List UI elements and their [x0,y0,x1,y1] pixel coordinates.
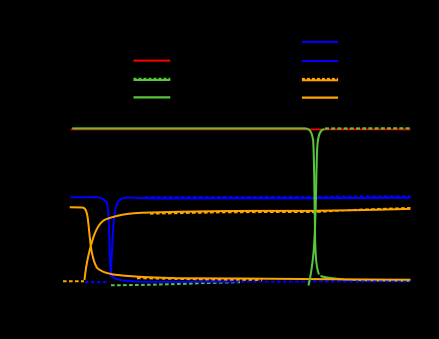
blue rising curve to right plateau [111,197,411,277]
blue solid curve: left plateau, fall, bottom tail [70,197,235,282]
legend 1 entry: green dashed handle (dash over solid pair) [134,79,171,81]
blue dashed curve: bottom-left dashes before rise [85,281,108,283]
legend 2 entry: blue solid handle 2 [302,60,338,62]
legend 2 entry: blue solid handle 1 [302,41,338,43]
legend 1 entry: red solid handle [134,60,171,62]
orange dashed overlay under right plateau [150,208,411,214]
legend 2 entry: orange dashed handle (dash over solid pair) [302,79,338,81]
orange solid curve: left plateau, fall, bottom tail [70,207,411,279]
orange dashed curve: bottom-left dashes before rise [63,280,84,282]
blue dashed overlay on right plateau [145,196,411,198]
blue dashed tail continuation bottom right [235,281,411,283]
green dashed curve: bottom segment (under other tails) [111,282,240,285]
green dashed curve: steep rise at second equivalence [309,129,325,286]
orange dashed tail bumps below solid tail [137,278,262,280]
green solid curve: top plateau and fall at second equivalence [72,128,319,274]
green dashed curve: top-right dashes over red [325,127,411,129]
legend 2 entry: orange solid handle [302,96,338,98]
orange rising curve to right plateau [85,209,411,280]
red solid line (total, full width) [71,128,411,130]
legend 1 entry: green solid handle [134,96,171,98]
green solid curve: tail segment (under blue/orange tails) [321,276,411,281]
